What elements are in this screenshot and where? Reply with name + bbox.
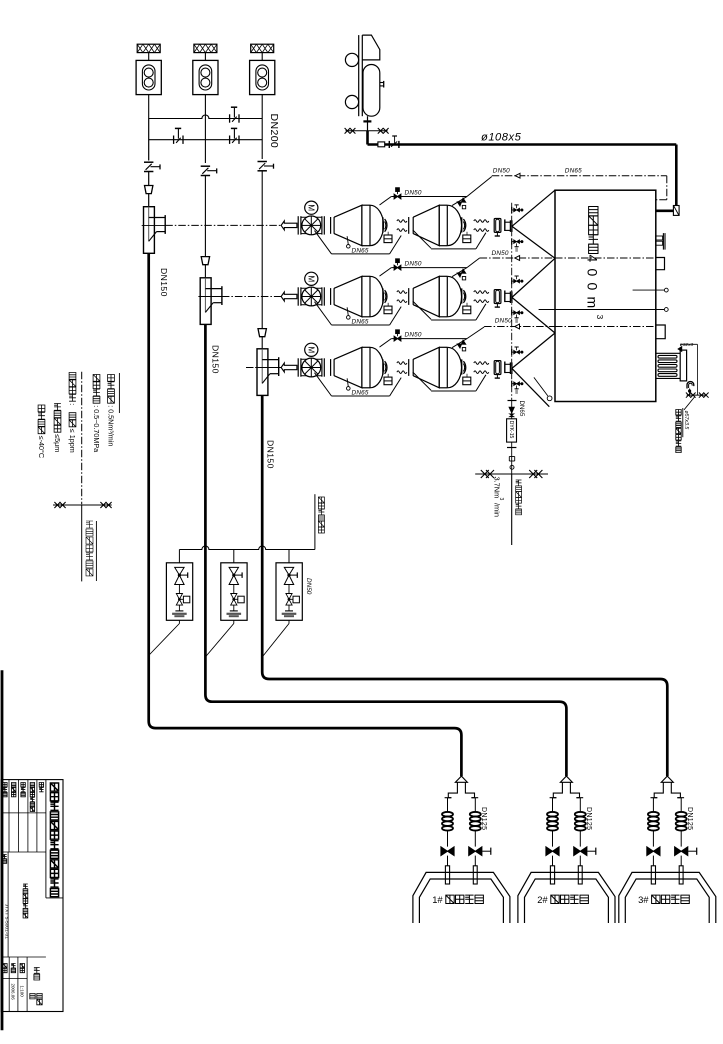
svg-text:/min: /min bbox=[492, 503, 501, 517]
svg-text:M: M bbox=[306, 204, 315, 211]
svg-text:3.7Nm: 3.7Nm bbox=[492, 477, 501, 499]
svg-text:DN50: DN50 bbox=[405, 332, 422, 339]
svg-text:JTXT 5-5001-01: JTXT 5-5001-01 bbox=[4, 904, 10, 940]
svg-text:1:100: 1:100 bbox=[20, 986, 25, 998]
svg-text:DN65: DN65 bbox=[352, 319, 369, 326]
svg-text:DN65: DN65 bbox=[518, 401, 525, 417]
svg-text::: : bbox=[68, 403, 77, 405]
svg-text:DN65: DN65 bbox=[352, 247, 369, 254]
svg-text:3#: 3# bbox=[638, 894, 649, 905]
svg-text:DN65: DN65 bbox=[565, 168, 582, 175]
svg-text:400m: 400m bbox=[585, 255, 601, 315]
svg-text:DN50: DN50 bbox=[405, 261, 422, 268]
svg-text:DYK-15: DYK-15 bbox=[508, 421, 514, 439]
svg-text:DN50: DN50 bbox=[495, 318, 512, 325]
svg-text:3: 3 bbox=[595, 315, 605, 320]
svg-text:DN150: DN150 bbox=[159, 268, 169, 297]
svg-text:DN125: DN125 bbox=[686, 807, 693, 830]
svg-text:≤ 1ppm: ≤ 1ppm bbox=[68, 429, 77, 453]
svg-text:1#: 1# bbox=[432, 894, 443, 905]
svg-text:DN50: DN50 bbox=[492, 250, 509, 257]
svg-text:DN150: DN150 bbox=[211, 345, 221, 374]
svg-text:DN125: DN125 bbox=[585, 807, 592, 830]
svg-text:: 0.5Nm³/min: : 0.5Nm³/min bbox=[106, 405, 115, 446]
svg-text:DN50: DN50 bbox=[405, 189, 422, 196]
svg-text:DN50: DN50 bbox=[493, 168, 510, 175]
svg-text:DN150: DN150 bbox=[266, 440, 276, 469]
svg-text:DN200: DN200 bbox=[268, 114, 280, 149]
svg-text:DN50: DN50 bbox=[305, 578, 312, 595]
svg-text:: 0.5~0.70MPa: : 0.5~0.70MPa bbox=[92, 405, 101, 452]
svg-text:2006.06: 2006.06 bbox=[11, 984, 16, 1001]
svg-text:≤5μm: ≤5μm bbox=[53, 434, 62, 452]
svg-text:DN65: DN65 bbox=[352, 390, 369, 397]
svg-text:≤-40°C: ≤-40°C bbox=[37, 436, 46, 458]
svg-text:M: M bbox=[306, 275, 315, 282]
svg-text:2#: 2# bbox=[537, 894, 548, 905]
svg-text:ø57x3.5: ø57x3.5 bbox=[683, 411, 689, 430]
svg-text:DN125: DN125 bbox=[480, 807, 487, 830]
svg-text:3: 3 bbox=[498, 498, 504, 501]
svg-text:ø108x5: ø108x5 bbox=[481, 132, 522, 144]
svg-text:M: M bbox=[306, 346, 315, 353]
